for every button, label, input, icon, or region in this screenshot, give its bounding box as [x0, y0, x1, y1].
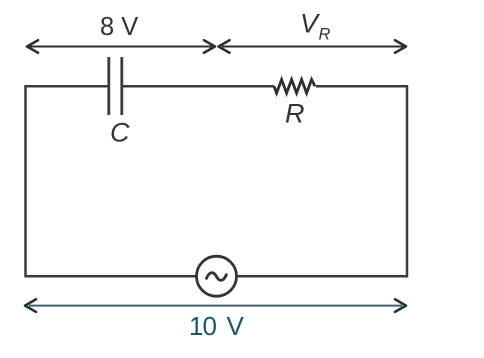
svg-text:R: R [285, 99, 305, 129]
svg-text:V: V [227, 311, 245, 341]
svg-text:10: 10 [189, 311, 217, 341]
svg-text:C: C [110, 118, 130, 148]
svg-text:R: R [319, 26, 331, 44]
svg-text:8 V: 8 V [100, 13, 138, 41]
